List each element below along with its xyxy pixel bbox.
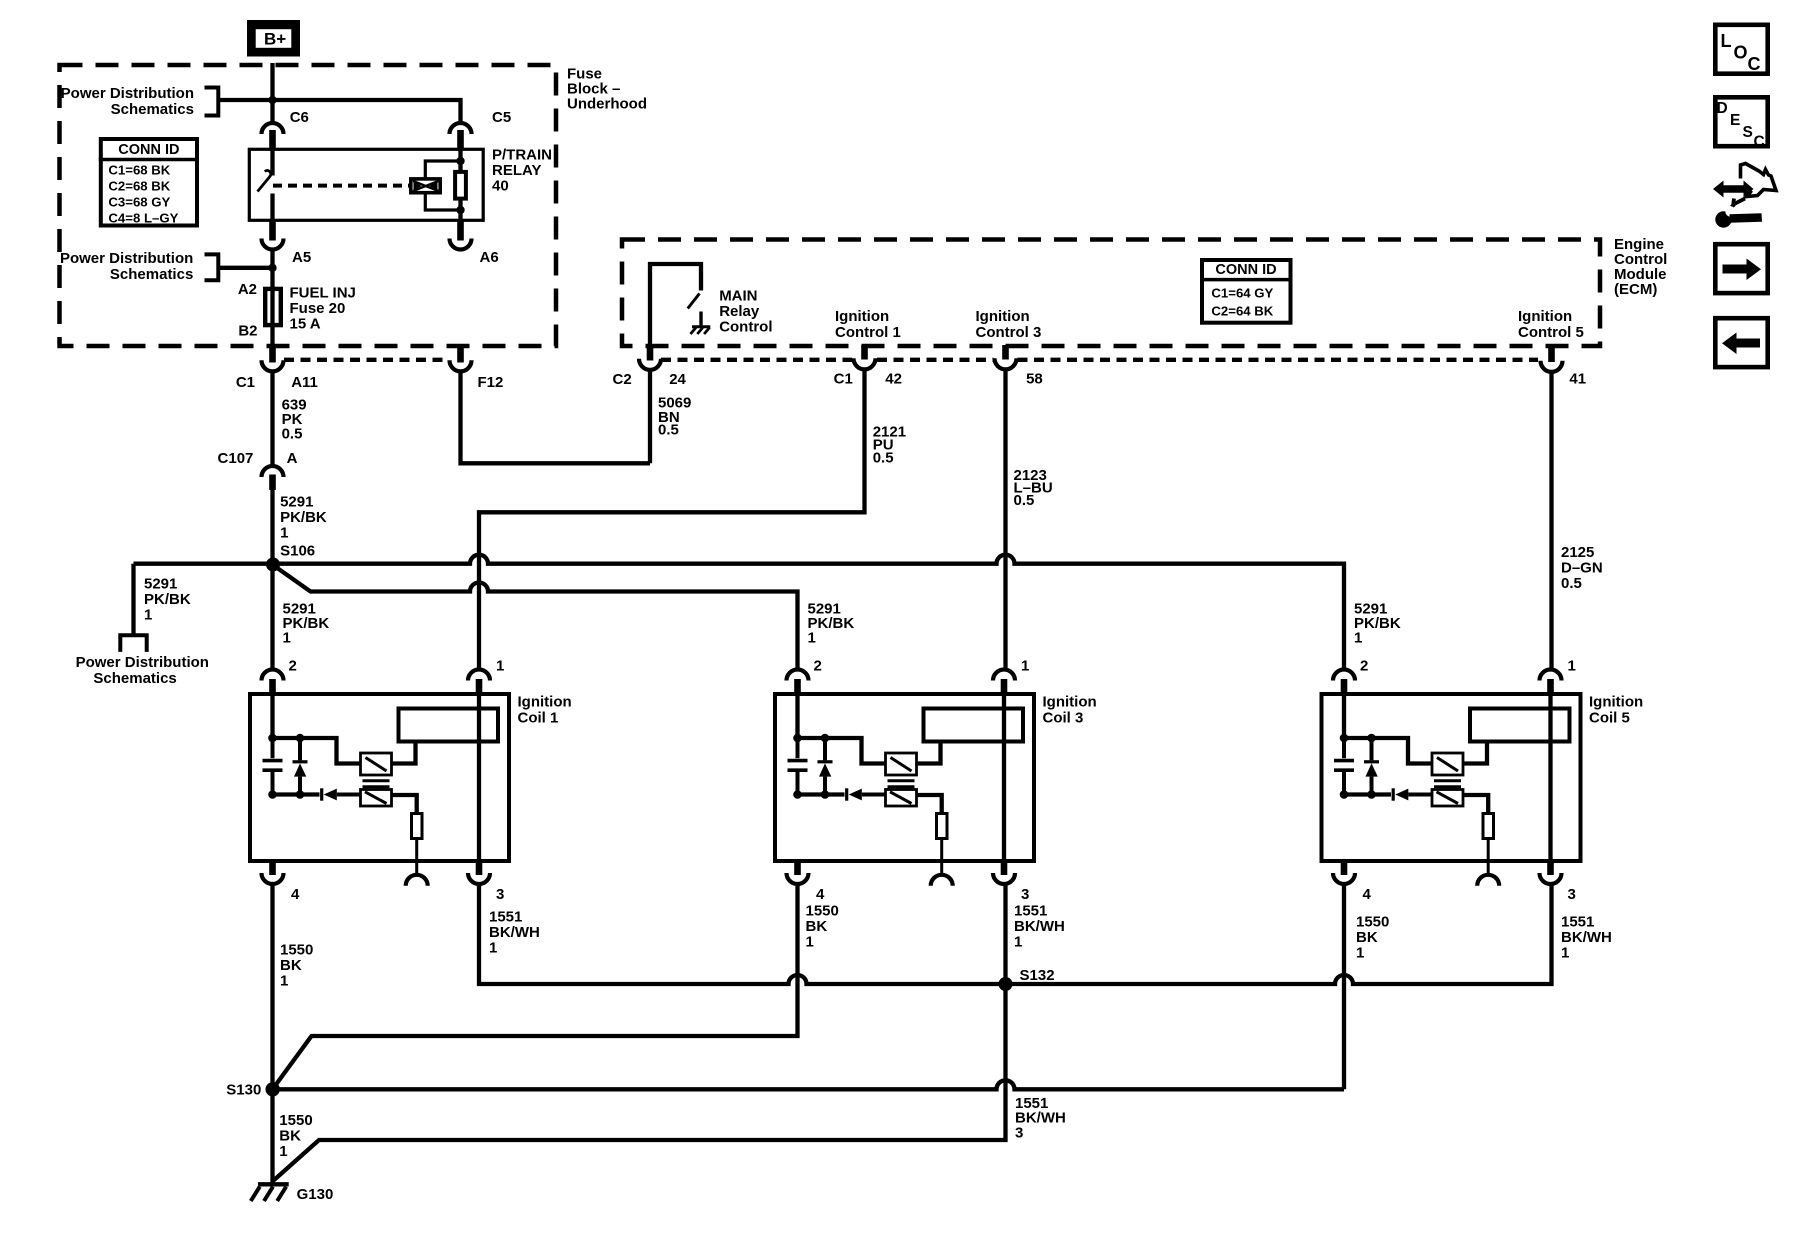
MAIN relay control switch xyxy=(650,264,701,346)
wire S106 main feed to coil 5 pin 2 xyxy=(134,555,1345,669)
svg-text:A11: A11 xyxy=(291,374,318,391)
coil 3 junction bottom left xyxy=(793,790,802,799)
relay resistor xyxy=(455,172,466,199)
ignition coil 1 middle connector xyxy=(406,875,428,886)
wire S130 to coil5 pin4 (1550 BK) xyxy=(273,1080,1344,1089)
ignition coil 1 box xyxy=(250,694,509,861)
coil 1 junction bottom left xyxy=(268,790,277,799)
svg-text:2: 2 xyxy=(289,658,297,675)
coil 1 internal node wire xyxy=(273,738,361,764)
ground G130 xyxy=(258,1182,289,1186)
splice S106 xyxy=(266,558,280,572)
wire S106 left branch xyxy=(131,564,135,636)
svg-text:BK/WH: BK/WH xyxy=(1561,929,1612,946)
junction relay top xyxy=(456,157,464,165)
coil 3 junction bottom right xyxy=(821,790,830,799)
wire A11 to C107 xyxy=(270,372,274,465)
wire coil3 pin1 to S132 xyxy=(1003,884,1007,984)
svg-text:BK: BK xyxy=(280,957,302,974)
coil 1 diode xyxy=(320,788,323,800)
power distribution schematics reference (bottom left) xyxy=(120,635,146,652)
ignition coil 3 box xyxy=(775,694,1034,861)
svg-text:B2: B2 xyxy=(238,323,257,340)
svg-text:RELAY: RELAY xyxy=(492,162,541,179)
svg-text:1: 1 xyxy=(1354,630,1362,647)
coil 3 driver upper xyxy=(886,753,917,775)
svg-text:1551: 1551 xyxy=(1561,914,1594,931)
svg-text:C: C xyxy=(1754,134,1765,151)
icon previous page xyxy=(1715,318,1767,367)
svg-text:A2: A2 xyxy=(238,281,257,298)
svg-text:1: 1 xyxy=(279,1143,287,1160)
fuse block connector C1 dotted edge xyxy=(284,358,449,362)
fuse block CONN ID table xyxy=(101,139,197,226)
svg-text:C2=68 BK: C2=68 BK xyxy=(108,179,170,194)
wire coil5 pin4 drop xyxy=(1342,884,1346,1089)
svg-text:L: L xyxy=(1721,31,1732,51)
coil 5 resistor to connector wire xyxy=(1487,839,1490,874)
svg-text:P/TRAIN: P/TRAIN xyxy=(492,147,552,164)
coil 3 driver to winding wire xyxy=(917,742,941,764)
svg-text:15 A: 15 A xyxy=(290,316,321,333)
svg-text:4: 4 xyxy=(1363,886,1372,903)
wire A5 tap xyxy=(218,266,272,270)
svg-text:C1: C1 xyxy=(236,374,255,391)
connector C1 A11 xyxy=(269,346,276,363)
coil 1 driver upper xyxy=(361,753,392,775)
svg-text:Ignition: Ignition xyxy=(835,308,889,325)
svg-text:4: 4 xyxy=(291,886,300,903)
svg-text:S132: S132 xyxy=(1020,967,1055,984)
coil 3 zener diode xyxy=(823,738,827,760)
svg-text:Schematics: Schematics xyxy=(111,101,194,118)
splice S130 xyxy=(266,1082,280,1096)
wire S132 to ground (1551 BK/WH 3) xyxy=(274,984,1006,1181)
ignition coil 3 connector pin 3 xyxy=(1001,861,1008,875)
svg-text:3: 3 xyxy=(1021,886,1029,903)
ignition coil 5 box xyxy=(1322,694,1581,861)
coil 5 driver to resistor wire xyxy=(1463,795,1488,812)
svg-text:C: C xyxy=(1748,54,1761,74)
svg-text:C6: C6 xyxy=(290,109,309,126)
coil 5 lower node wire xyxy=(1344,792,1391,796)
svg-text:C1=64 GY: C1=64 GY xyxy=(1211,286,1273,301)
icon LOC box xyxy=(1715,25,1767,74)
coil 5 pin 1 internal wire xyxy=(1548,694,1552,861)
svg-text:5291: 5291 xyxy=(144,576,177,593)
svg-text:3: 3 xyxy=(496,886,504,903)
coil 1 core xyxy=(363,781,390,787)
relay coil parallel wires xyxy=(425,161,460,210)
coil 1 resistor to connector wire xyxy=(415,839,418,874)
svg-text:CONN ID: CONN ID xyxy=(1215,262,1276,278)
svg-text:C2=64 BK: C2=64 BK xyxy=(1211,304,1273,319)
coil 3 diode xyxy=(845,788,848,800)
wire 58 to coil 3 control (2123 L-BU) xyxy=(1003,370,1007,669)
icon DESC box xyxy=(1715,97,1767,146)
svg-text:1: 1 xyxy=(1014,934,1022,951)
coil 5 driver upper xyxy=(1432,753,1463,775)
coil 3 driver lower xyxy=(886,790,917,807)
coil 3 core xyxy=(888,781,915,787)
svg-text:0.5: 0.5 xyxy=(282,426,303,443)
ignition coil 5 connector pin 4 xyxy=(1341,861,1348,875)
coil 5 pin 2 internal wire xyxy=(1342,694,1346,738)
wire C107 to S106 xyxy=(270,490,274,564)
svg-text:1: 1 xyxy=(1561,945,1569,962)
svg-text:C4=8 L–GY: C4=8 L–GY xyxy=(108,211,178,226)
svg-text:Coil 1: Coil 1 xyxy=(518,710,559,727)
svg-text:Coil 3: Coil 3 xyxy=(1043,710,1084,727)
wire F12 to 24 (5069 BN) xyxy=(461,371,651,464)
coil 5 junction bottom left xyxy=(1340,790,1349,799)
wire 41 to coil 5 control (2125 D-GN) xyxy=(1549,373,1553,669)
ignition coil 5 middle connector xyxy=(1477,875,1499,886)
coil 5 driver lower xyxy=(1432,790,1463,807)
wire coil1 pin3 to coil5 pin3 (1551 BK/WH) xyxy=(479,884,1552,984)
fuse block - underhood dashed box xyxy=(60,65,557,346)
coil 3 primary winding box xyxy=(924,709,1024,742)
svg-text:Fuse 20: Fuse 20 xyxy=(290,300,346,317)
coil 1 internal resistor xyxy=(412,814,423,839)
ignition coil 5 connector pin 2 xyxy=(1333,670,1355,681)
coil 1 driver to winding wire xyxy=(392,742,416,764)
svg-text:0.5: 0.5 xyxy=(1014,492,1035,509)
ignition coil 1 connector pin 1 xyxy=(468,670,490,681)
coil 5 internal node wire xyxy=(1344,738,1432,764)
svg-text:F12: F12 xyxy=(478,374,504,391)
coil 3 internal resistor xyxy=(937,814,948,839)
coil 1 driver to resistor wire xyxy=(392,795,417,812)
coil 1 junction top right xyxy=(296,734,305,743)
svg-text:Ignition: Ignition xyxy=(1518,308,1572,325)
svg-text:58: 58 xyxy=(1026,371,1043,388)
svg-text:1550: 1550 xyxy=(806,903,839,920)
engine control module dashed box xyxy=(622,240,1600,347)
svg-text:42: 42 xyxy=(885,371,902,388)
splice S132 xyxy=(999,977,1013,991)
svg-text:5291: 5291 xyxy=(280,494,313,511)
junction B+ tap xyxy=(268,96,276,104)
svg-text:S130: S130 xyxy=(226,1082,261,1099)
ignition coil 1 connector pin 3 xyxy=(476,861,483,875)
svg-text:Coil 5: Coil 5 xyxy=(1589,710,1630,727)
svg-text:BK: BK xyxy=(806,918,828,935)
svg-text:C2: C2 xyxy=(613,371,632,388)
connector C107 pin A xyxy=(262,466,284,477)
ECM connector dotted edge xyxy=(661,358,1538,362)
ignition coil 3 connector pin 4 xyxy=(794,861,801,875)
coil 1 junction top left xyxy=(268,734,277,743)
svg-text:E: E xyxy=(1730,112,1740,129)
svg-text:Ignition: Ignition xyxy=(518,694,572,711)
wire 42 to coil 1 control (2121 PU) xyxy=(479,370,865,669)
wire C5 through relay xyxy=(458,149,462,220)
svg-text:1: 1 xyxy=(280,525,288,542)
wire S106 to coil 1 pin 2 xyxy=(270,565,274,669)
svg-text:1551: 1551 xyxy=(489,909,522,926)
relay coil symbol xyxy=(411,179,440,193)
svg-text:1: 1 xyxy=(283,630,291,647)
svg-text:41: 41 xyxy=(1569,371,1586,388)
coil 3 capacitor xyxy=(796,738,800,758)
junction A5 tap xyxy=(268,264,276,272)
svg-text:Ignition: Ignition xyxy=(1589,694,1643,711)
svg-text:Power Distribution: Power Distribution xyxy=(76,654,209,671)
svg-text:1: 1 xyxy=(1568,658,1576,675)
svg-text:0.5: 0.5 xyxy=(1561,575,1582,592)
ignition coil 3 connector pin 1 xyxy=(993,670,1015,681)
svg-text:1551: 1551 xyxy=(1014,903,1047,920)
svg-text:Relay: Relay xyxy=(719,303,760,320)
svg-text:0.5: 0.5 xyxy=(658,422,679,439)
svg-text:2: 2 xyxy=(1360,658,1368,675)
svg-text:3: 3 xyxy=(1568,886,1576,903)
ECM CONN ID table xyxy=(1202,260,1291,323)
icon next page xyxy=(1715,244,1767,293)
coil 5 junction top right xyxy=(1367,734,1376,743)
connector C6 xyxy=(262,123,284,134)
junction relay bottom xyxy=(456,206,464,214)
svg-text:3: 3 xyxy=(1015,1125,1023,1142)
svg-text:1550: 1550 xyxy=(1356,914,1389,931)
svg-text:A6: A6 xyxy=(480,249,499,266)
ignition coil 3 middle connector xyxy=(931,875,953,886)
svg-text:2: 2 xyxy=(814,658,822,675)
svg-text:C1: C1 xyxy=(834,371,853,388)
P/TRAIN relay 40 box xyxy=(249,149,483,220)
svg-text:1: 1 xyxy=(280,973,288,990)
coil 1 lower node wire xyxy=(273,792,320,796)
svg-text:PK/BK: PK/BK xyxy=(144,591,191,608)
svg-text:Power Distribution: Power Distribution xyxy=(61,85,194,102)
svg-text:1: 1 xyxy=(806,934,814,951)
wire A5 to fuse to A11 xyxy=(270,249,274,346)
MAIN relay control switch blade xyxy=(688,294,700,309)
wire coil3 pin4 to S130 xyxy=(273,884,798,1089)
svg-text:40: 40 xyxy=(492,178,509,195)
coil 3 resistor to connector wire xyxy=(940,839,943,874)
svg-text:C5: C5 xyxy=(492,109,511,126)
svg-text:1: 1 xyxy=(808,630,816,647)
ignition coil 1 connector pin 2 xyxy=(262,670,284,681)
svg-text:PK/BK: PK/BK xyxy=(280,509,327,526)
ignition coil 3 connector pin 2 xyxy=(787,670,809,681)
wire power distribution tap to C5 xyxy=(218,100,460,122)
svg-text:Underhood: Underhood xyxy=(567,96,647,113)
svg-text:MAIN: MAIN xyxy=(719,288,757,305)
wire coil1 pin4 to ground xyxy=(270,884,274,1182)
svg-text:Ignition: Ignition xyxy=(976,308,1030,325)
coil 5 core xyxy=(1434,781,1461,787)
wire B+ to C6 xyxy=(270,63,274,122)
connector A6 xyxy=(457,220,464,240)
wire S106 branch to coil 3 pin 2 xyxy=(273,565,798,669)
connector pin 41 xyxy=(1548,348,1555,362)
svg-text:BK/WH: BK/WH xyxy=(489,924,540,941)
svg-text:Control: Control xyxy=(719,319,772,336)
coil 3 junction top right xyxy=(821,734,830,743)
connector C5 xyxy=(450,123,472,134)
svg-text:1: 1 xyxy=(144,607,152,624)
connector C1 F12 xyxy=(457,346,464,363)
battery positive terminal B+ xyxy=(251,24,297,54)
connector C2 pin 24 xyxy=(647,346,654,361)
relay switch contact wire xyxy=(270,149,274,175)
coil 1 pin 1 internal wire xyxy=(477,694,481,861)
coil 5 diode xyxy=(1392,788,1395,800)
svg-text:C1=68 BK: C1=68 BK xyxy=(108,163,170,178)
svg-text:C3=68 GY: C3=68 GY xyxy=(108,195,170,210)
svg-text:Control 5: Control 5 xyxy=(1518,324,1584,341)
svg-text:1: 1 xyxy=(489,940,497,957)
coil 3 internal node wire xyxy=(798,738,886,764)
ignition coil 1 connector pin 4 xyxy=(269,861,276,875)
svg-text:4: 4 xyxy=(816,886,825,903)
svg-text:Schematics: Schematics xyxy=(93,670,176,687)
svg-text:1: 1 xyxy=(1021,658,1029,675)
relay actuation dashed link xyxy=(273,184,409,188)
svg-text:1: 1 xyxy=(1356,945,1364,962)
ignition coil 5 connector pin 3 xyxy=(1547,861,1554,875)
svg-text:BK: BK xyxy=(279,1128,301,1145)
connector A5 xyxy=(269,220,276,240)
fuse FUEL INJ 15A xyxy=(265,289,281,325)
svg-text:2125: 2125 xyxy=(1561,544,1594,561)
svg-text:Ignition: Ignition xyxy=(1043,694,1097,711)
svg-text:CONN ID: CONN ID xyxy=(118,142,179,158)
coil 5 capacitor xyxy=(1342,738,1346,758)
ignition coil 5 connector pin 1 xyxy=(1540,670,1562,681)
coil 5 primary winding box xyxy=(1470,709,1570,742)
svg-text:Power Distribution: Power Distribution xyxy=(60,250,193,267)
svg-text:C107: C107 xyxy=(218,450,254,467)
connector pin 58 xyxy=(1002,345,1009,360)
relay switch lower contact wire xyxy=(270,194,274,221)
relay switch blade xyxy=(258,170,271,191)
coil 3 pin 1 internal wire xyxy=(1002,694,1006,861)
svg-text:Control 1: Control 1 xyxy=(835,324,901,341)
svg-text:S: S xyxy=(1743,124,1753,141)
svg-text:0.5: 0.5 xyxy=(873,450,894,467)
coil 1 pin 2 internal wire xyxy=(270,694,274,738)
svg-text:Control 3: Control 3 xyxy=(976,324,1042,341)
coil 3 pin 2 internal wire xyxy=(795,694,799,738)
coil 1 zener diode xyxy=(298,738,302,760)
coil 5 zener diode xyxy=(1370,738,1374,760)
svg-text:Schematics: Schematics xyxy=(110,266,193,283)
ground MAIN relay control xyxy=(699,312,702,326)
svg-text:S106: S106 xyxy=(280,543,315,560)
connector C1 pin 42 xyxy=(861,345,868,360)
svg-text:(ECM): (ECM) xyxy=(1614,281,1657,298)
coil 1 junction bottom right xyxy=(296,790,305,799)
coil 3 driver to resistor wire xyxy=(917,795,942,812)
svg-text:1: 1 xyxy=(496,658,504,675)
coil 1 capacitor xyxy=(271,738,275,758)
svg-text:O: O xyxy=(1734,43,1748,63)
coil 3 lower node wire xyxy=(798,792,845,796)
coil 5 junction top left xyxy=(1340,734,1349,743)
svg-text:D: D xyxy=(1717,100,1728,117)
coil 5 driver to winding wire xyxy=(1463,742,1487,764)
svg-text:BK: BK xyxy=(1356,929,1378,946)
coil 5 junction bottom right xyxy=(1367,790,1376,799)
svg-text:1550: 1550 xyxy=(280,942,313,959)
coil 5 internal resistor xyxy=(1483,814,1494,839)
coil 1 primary winding box xyxy=(399,709,499,742)
svg-text:A: A xyxy=(287,450,298,467)
svg-text:A5: A5 xyxy=(292,249,311,266)
svg-text:D–GN: D–GN xyxy=(1561,560,1603,577)
svg-text:24: 24 xyxy=(669,371,686,388)
coil 1 driver lower xyxy=(361,790,392,807)
icon jump to diagnostics xyxy=(1713,181,1754,198)
svg-text:FUEL INJ: FUEL INJ xyxy=(290,285,356,302)
coil 3 junction top left xyxy=(793,734,802,743)
svg-text:G130: G130 xyxy=(297,1186,334,1203)
svg-text:BK/WH: BK/WH xyxy=(1014,918,1065,935)
svg-text:1550: 1550 xyxy=(279,1112,312,1129)
svg-text:B+: B+ xyxy=(264,30,286,49)
